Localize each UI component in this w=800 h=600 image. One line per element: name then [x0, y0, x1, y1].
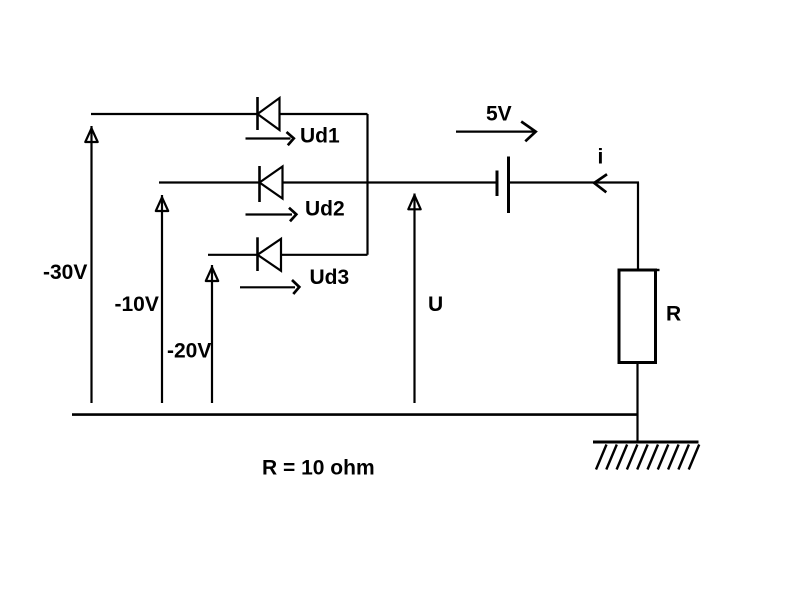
svg-text:Ud3: Ud3 — [310, 266, 350, 289]
svg-text:R: R — [666, 303, 681, 326]
svg-text:U: U — [428, 293, 443, 316]
svg-text:Ud2: Ud2 — [305, 198, 345, 221]
svg-text:5V: 5V — [486, 103, 512, 126]
svg-text:-10V: -10V — [115, 293, 159, 316]
svg-text:R = 10 ohm: R = 10 ohm — [262, 457, 375, 480]
svg-text:i: i — [598, 146, 604, 169]
svg-text:Ud1: Ud1 — [300, 125, 340, 148]
svg-text:-30V: -30V — [43, 261, 87, 284]
svg-text:-20V: -20V — [167, 340, 211, 363]
